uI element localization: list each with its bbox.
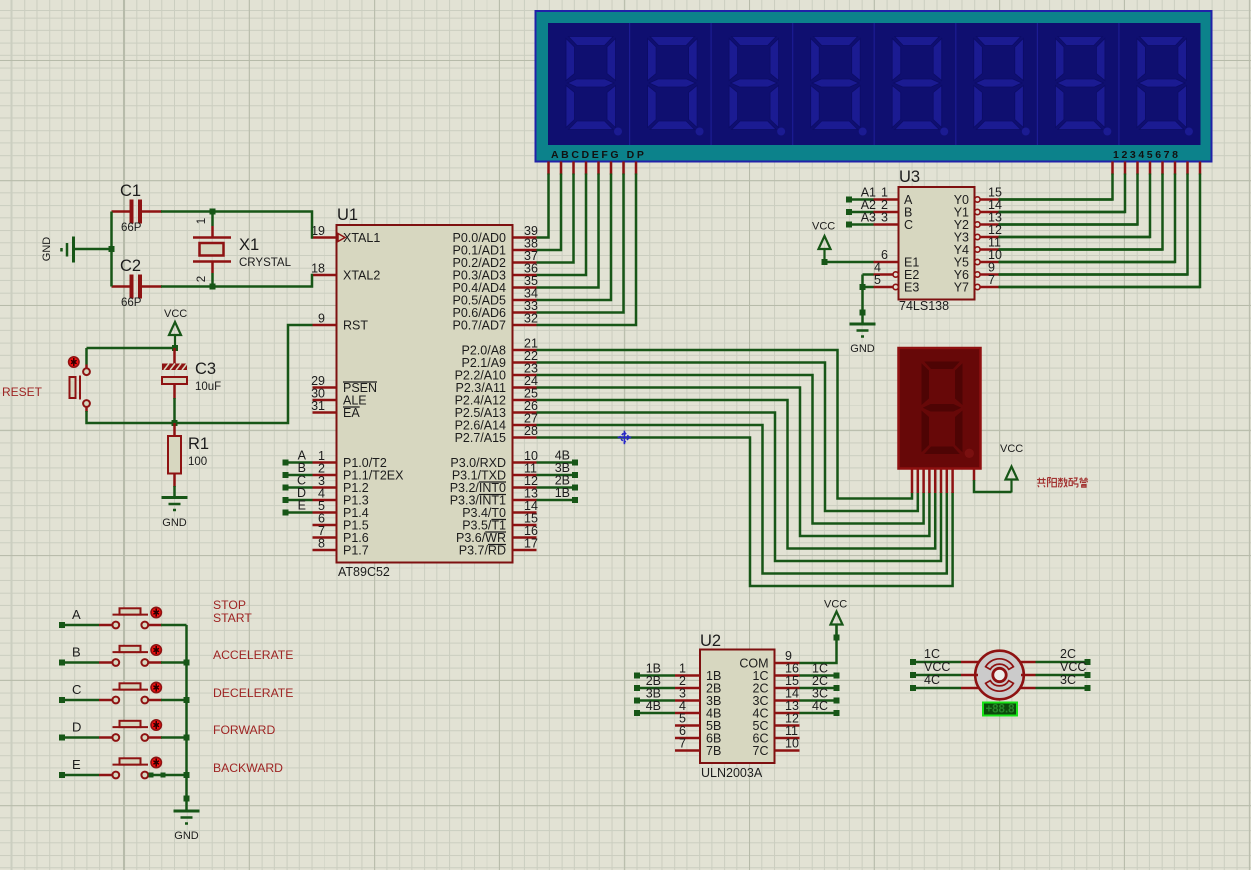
button E actuator — [151, 757, 161, 767]
U1 pin 17 P3.7 — [513, 549, 537, 552]
ground GND left of crystal — [72, 237, 75, 263]
wire display digit pin 5 to U3 Y4 — [1161, 162, 1164, 175]
extra node on E row — [149, 773, 154, 778]
wire U1 P2.1 to 7-seg display — [537, 363, 918, 512]
wire reset button to RST — [85, 407, 88, 412]
wire button bus to ground — [185, 625, 188, 811]
button B actuator — [151, 645, 161, 655]
svg-text:VCC: VCC — [812, 221, 835, 233]
svg-text:B: B — [72, 645, 81, 660]
U1 pin 21 P2.0 — [513, 349, 537, 352]
wire U1 P2.3 to 7-seg display — [537, 388, 930, 537]
ground below buttons — [174, 810, 200, 813]
wire U1 P2.4 to 7-seg display — [537, 400, 936, 549]
U1 pin 3 P1.2 — [313, 486, 337, 489]
cursor marker — [618, 431, 632, 445]
svg-text:4C: 4C — [924, 673, 940, 687]
svg-text:+88.8: +88.8 — [985, 704, 1015, 716]
U1 pin 18 XTAL2 — [313, 274, 337, 277]
node X1 pin2 junction — [210, 284, 216, 290]
push-button C — [59, 697, 65, 703]
svg-text:U3: U3 — [899, 168, 920, 186]
node A at U1 P1.0 — [283, 460, 289, 466]
svg-text:VCC: VCC — [924, 660, 950, 674]
svg-text:28: 28 — [524, 424, 538, 438]
node 1C at U2 — [800, 674, 837, 677]
wire display seg pin 2 to U1 P0.1 — [560, 162, 563, 175]
svg-text:P0.7/AD7: P0.7/AD7 — [452, 319, 506, 333]
svg-text:2: 2 — [196, 276, 208, 282]
svg-text:9: 9 — [318, 312, 325, 326]
wire VCC to reset button — [87, 347, 176, 350]
capacitor C2 — [112, 285, 132, 288]
svg-text:GND: GND — [174, 830, 199, 842]
U1 pin 10 P3.0 — [513, 461, 537, 464]
svg-text:VCC: VCC — [164, 308, 187, 320]
wire display seg pin 6 to U1 P0.5 — [610, 162, 613, 175]
node 1B at U2 — [634, 673, 640, 679]
U1 pin 8 P1.7 — [313, 549, 337, 552]
wire display seg pin 4 to U1 P0.3 — [585, 162, 588, 175]
U1 pin 14 P3.4 — [513, 511, 537, 514]
U1 pin 27 P2.6 — [513, 424, 537, 427]
microcontroller U1 AT89C52 — [337, 225, 513, 563]
svg-text:C1: C1 — [120, 182, 141, 200]
U3 pin 3 C net A3 — [846, 222, 852, 228]
svg-text:74LS138: 74LS138 — [899, 299, 949, 313]
node 3B at U1 P3.1 — [537, 474, 574, 477]
button A actuator — [151, 607, 161, 617]
svg-text:BACKWARD: BACKWARD — [213, 761, 283, 775]
svg-text:Y7: Y7 — [954, 281, 969, 295]
svg-text:ACCELERATE: ACCELERATE — [213, 648, 293, 662]
wire display digit pin 8 to U3 Y7 — [1199, 162, 1202, 175]
wire display digit pin 6 to U3 Y5 — [1174, 162, 1177, 175]
U3 pin 9 Y6 — [975, 272, 980, 277]
svg-text:12345678: 12345678 — [1113, 149, 1181, 161]
svg-text:GND: GND — [162, 517, 187, 529]
svg-text:A3: A3 — [861, 211, 876, 225]
wire C2 to XTAL2 — [161, 275, 313, 287]
svg-text:AT89C52: AT89C52 — [338, 565, 390, 579]
U1 pin 7 P1.6 — [313, 536, 337, 539]
node B at U1 P1.1 — [283, 472, 289, 478]
svg-text:FORWARD: FORWARD — [213, 723, 275, 737]
U1 XTAL1 clock arrow — [338, 234, 345, 242]
svg-text:C2: C2 — [120, 257, 141, 275]
U1 pin 2 P1.1/T2EX — [313, 474, 337, 477]
svg-text:R1: R1 — [188, 435, 209, 453]
wire display digit pin 1 to U3 Y0 — [1111, 162, 1114, 175]
wire U1 P2.5 to 7-seg display — [537, 413, 942, 562]
node 2C at U2 — [800, 687, 837, 690]
U1 pin 25 P2.4 — [513, 399, 537, 402]
U3 pin 15 Y0 — [975, 197, 980, 202]
capacitor C1 — [112, 210, 132, 213]
U2 pin 10 7C — [775, 749, 800, 752]
U1 pin 28 P2.7 — [513, 436, 537, 439]
svg-text:8: 8 — [318, 537, 325, 551]
U1 pin 19 XTAL1 — [313, 236, 337, 239]
U3 pin 11 Y4 — [975, 247, 980, 252]
node 1B at U1 P3.3 — [537, 499, 574, 502]
RESET button actuator — [69, 357, 79, 367]
svg-text:U2: U2 — [700, 632, 721, 650]
U2 left pins 1B-7B — [675, 674, 700, 677]
U2 pin 16 1C — [775, 674, 800, 677]
wire display digit pin 3 to U3 Y2 — [1136, 162, 1139, 175]
svg-text:EA: EA — [343, 406, 360, 420]
U2 pin 14 3C — [775, 699, 800, 702]
svg-text:18: 18 — [311, 262, 325, 276]
U1 pin 4 P1.3 — [313, 499, 337, 502]
U3 pin 13 Y2 — [975, 222, 980, 227]
driver U2 ULN2003A — [700, 650, 775, 764]
svg-text:VCC: VCC — [824, 599, 847, 611]
svg-text:P1.7: P1.7 — [343, 544, 369, 558]
node 2B at U1 P3.2 — [537, 486, 574, 489]
wire U1 P2.7 to 7-seg display — [537, 438, 953, 587]
node 3B at U2 — [634, 698, 640, 704]
wire C1 to XTAL1 — [161, 212, 313, 238]
U1 pin 6 P1.5 — [313, 524, 337, 527]
U3 pin 10 Y5 — [975, 259, 980, 264]
U1 pin 26 P2.5 — [513, 411, 537, 414]
U1 pin 5 P1.4 — [313, 511, 337, 514]
svg-text:5: 5 — [874, 273, 881, 287]
wire display digit pin 7 to U3 Y6 — [1186, 162, 1189, 175]
svg-text:C: C — [904, 218, 913, 232]
svg-text:1: 1 — [196, 218, 208, 224]
button D actuator — [151, 720, 161, 730]
svg-text:1B: 1B — [555, 486, 570, 500]
svg-text:D: D — [72, 720, 81, 735]
wire display seg pin 3 to U1 P0.2 — [572, 162, 575, 175]
U1 pin 31 EA — [313, 411, 337, 414]
U1 pin 16 P3.6 — [513, 536, 537, 539]
7-segment display (common anode) — [899, 348, 981, 469]
svg-text:X1: X1 — [239, 236, 259, 254]
svg-text:4C: 4C — [812, 699, 828, 713]
node C at U1 P1.2 — [283, 485, 289, 491]
U3 pin 12 Y3 — [975, 234, 980, 239]
wire display digit pin 2 to U3 Y1 — [1124, 162, 1127, 175]
node 2B at U2 — [634, 685, 640, 691]
U3 pin 1 A net A1 — [846, 197, 852, 203]
push-button B — [59, 660, 65, 666]
svg-text:7: 7 — [988, 273, 995, 287]
svg-text:VCC: VCC — [1000, 443, 1023, 455]
wire display seg pin 8 to U1 P0.7 — [635, 162, 638, 175]
svg-text:4B: 4B — [646, 699, 661, 713]
U3 pin 14 Y1 — [975, 209, 980, 214]
svg-text:C3: C3 — [195, 360, 216, 378]
motor right pin 2C — [1021, 661, 1036, 664]
wire display seg pin 1 to U1 P0.0 — [547, 162, 550, 175]
wire U1 P2.0 to 7-seg display — [537, 350, 913, 499]
U1 pin 1 P1.0/T2 — [313, 461, 337, 464]
svg-text:66P: 66P — [121, 222, 142, 234]
ground below R1 — [162, 496, 188, 499]
svg-text:DECELERATE: DECELERATE — [213, 686, 293, 700]
crystal X1 — [211, 212, 214, 227]
motor left pin VCC — [910, 672, 916, 678]
U1 pin 29 PSEN — [313, 386, 337, 389]
svg-text:6: 6 — [881, 248, 888, 262]
node 4B at U2 — [634, 710, 640, 716]
svg-text:P2.7/A15: P2.7/A15 — [455, 431, 506, 445]
wire GND to C1/C2 rail — [74, 248, 112, 251]
svg-text:CRYSTAL: CRYSTAL — [239, 257, 292, 269]
motor right pin 3C — [1021, 687, 1036, 690]
svg-text:7B: 7B — [706, 744, 721, 758]
svg-text:VCC: VCC — [1060, 660, 1086, 674]
svg-text:1C: 1C — [924, 647, 940, 661]
wire U1 P2.6 to 7-seg display — [537, 425, 947, 574]
node 4B at U1 P3.0 — [537, 461, 574, 464]
U1 pin 13 P3.3 — [513, 499, 537, 502]
svg-text:GND: GND — [41, 237, 53, 262]
svg-text:U1: U1 — [337, 206, 358, 224]
ground below U3 — [850, 323, 876, 326]
svg-text:3: 3 — [881, 211, 888, 225]
wire U1 P2.2 to 7-seg display — [537, 375, 924, 524]
capacitor C3 10uF — [173, 348, 176, 364]
svg-text:ULN2003A: ULN2003A — [701, 766, 763, 780]
svg-text:10uF: 10uF — [195, 381, 221, 393]
U1 pin 15 P3.5 — [513, 524, 537, 527]
wire display seg pin 5 to U1 P0.4 — [597, 162, 600, 175]
U3 pin 2 B net A2 — [846, 209, 852, 215]
svg-text:17: 17 — [524, 537, 538, 551]
wire display digit pin 4 to U3 Y3 — [1149, 162, 1152, 175]
push-button D — [59, 735, 65, 741]
motor right pin VCC — [1021, 674, 1036, 677]
svg-text:E: E — [72, 757, 81, 772]
motor left pin 1C — [910, 659, 916, 665]
resistor R1 100 — [173, 423, 176, 436]
push-button E — [59, 772, 65, 778]
U1 pin 9 RST — [313, 324, 337, 327]
U2 pin 11 6C — [775, 737, 800, 740]
svg-text:START: START — [213, 611, 252, 625]
svg-text:66P: 66P — [121, 297, 142, 309]
svg-text:ABCDEFG DP: ABCDEFG DP — [551, 149, 646, 161]
stepper motor — [975, 651, 1024, 700]
svg-text:3C: 3C — [1060, 673, 1076, 687]
label common-anode digit (chinese) — [1037, 478, 1088, 488]
svg-text:GND: GND — [850, 343, 875, 355]
svg-text:2C: 2C — [1060, 647, 1076, 661]
svg-text:XTAL2: XTAL2 — [343, 269, 380, 283]
U1 pin 23 P2.2 — [513, 374, 537, 377]
svg-text:C: C — [72, 682, 81, 697]
svg-text:31: 31 — [311, 399, 325, 413]
U1 pin 30 ALE — [313, 399, 337, 402]
motor left pin 4C — [910, 685, 916, 691]
node E at U1 P1.4 — [283, 510, 289, 516]
push-button RESET — [85, 348, 88, 365]
U1 pin 24 P2.3 — [513, 386, 537, 389]
8-digit 7-segment display module — [536, 11, 1212, 162]
U3 pin 7 Y7 — [975, 284, 980, 289]
node X1 pin1 junction — [210, 209, 216, 215]
U2 pin 12 5C — [775, 724, 800, 727]
svg-text:100: 100 — [188, 456, 207, 468]
svg-text:P3.7/RD: P3.7/RD — [459, 544, 506, 558]
U1 pin 12 P3.2 — [513, 486, 537, 489]
svg-text:32: 32 — [524, 312, 538, 326]
svg-text:E: E — [298, 499, 306, 513]
svg-text:A: A — [72, 607, 81, 622]
svg-text:7C: 7C — [753, 744, 769, 758]
button C actuator — [151, 682, 161, 692]
junction squares on button bus — [184, 660, 190, 666]
svg-text:RST: RST — [343, 319, 368, 333]
svg-text:STOP: STOP — [213, 598, 246, 612]
svg-text:XTAL1: XTAL1 — [343, 231, 380, 245]
motor rpm meter — [983, 703, 1017, 716]
U2 pin 13 4C — [775, 712, 800, 715]
node 3C at U2 — [800, 699, 837, 702]
U1 pin 11 P3.1 — [513, 474, 537, 477]
svg-text:RESET: RESET — [2, 385, 43, 399]
U1 pin 22 P2.1 — [513, 361, 537, 364]
wire display seg pin 7 to U1 P0.6 — [622, 162, 625, 175]
wire E2/E3 to ground — [861, 275, 864, 325]
wire C1-C2 left rail — [110, 212, 113, 287]
node D at U1 P1.3 — [283, 497, 289, 503]
svg-text:7: 7 — [679, 737, 686, 751]
push-button A — [59, 622, 65, 628]
node 4C at U2 — [800, 712, 837, 715]
svg-text:E3: E3 — [904, 281, 919, 295]
decoder U3 74LS138 — [899, 187, 975, 300]
U2 pin 15 2C — [775, 687, 800, 690]
svg-text:10: 10 — [785, 737, 799, 751]
